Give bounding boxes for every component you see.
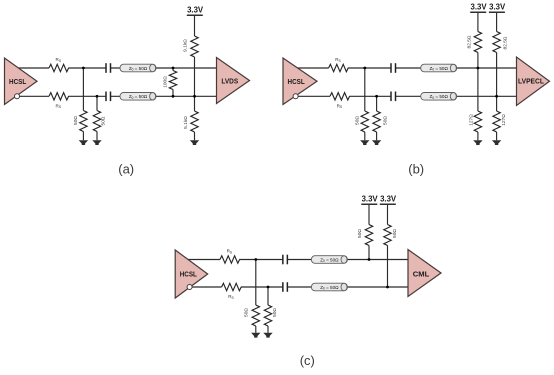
svg-text:82.5Ω: 82.5Ω (503, 36, 509, 49)
svg-text:LVPECL: LVPECL (518, 76, 544, 85)
svg-text:50Ω: 50Ω (243, 308, 249, 317)
svg-text:50Ω: 50Ω (357, 229, 363, 238)
svg-text:50Ω: 50Ω (392, 229, 398, 238)
svg-text:50Ω: 50Ω (272, 308, 278, 317)
svg-text:50Ω: 50Ω (73, 116, 79, 125)
svg-text:(c): (c) (300, 353, 315, 368)
svg-text:82.5Ω: 82.5Ω (466, 35, 472, 48)
svg-text:LVDS: LVDS (221, 77, 238, 86)
svg-text:HCSL: HCSL (288, 77, 306, 86)
svg-text:127Ω: 127Ω (501, 114, 507, 126)
svg-text:100Ω: 100Ω (163, 76, 169, 88)
svg-text:HCSL: HCSL (9, 77, 27, 86)
svg-text:9.1kΩ: 9.1kΩ (183, 39, 189, 52)
svg-text:5.1kΩ: 5.1kΩ (183, 116, 189, 129)
svg-text:50Ω: 50Ω (383, 116, 389, 125)
svg-text:CML: CML (413, 269, 430, 278)
svg-text:(a): (a) (118, 162, 134, 177)
svg-text:50Ω: 50Ω (101, 116, 107, 125)
svg-text:127Ω: 127Ω (469, 114, 475, 126)
svg-text:(b): (b) (408, 162, 424, 177)
svg-text:50Ω: 50Ω (354, 116, 360, 125)
svg-text:HCSL: HCSL (180, 270, 198, 279)
